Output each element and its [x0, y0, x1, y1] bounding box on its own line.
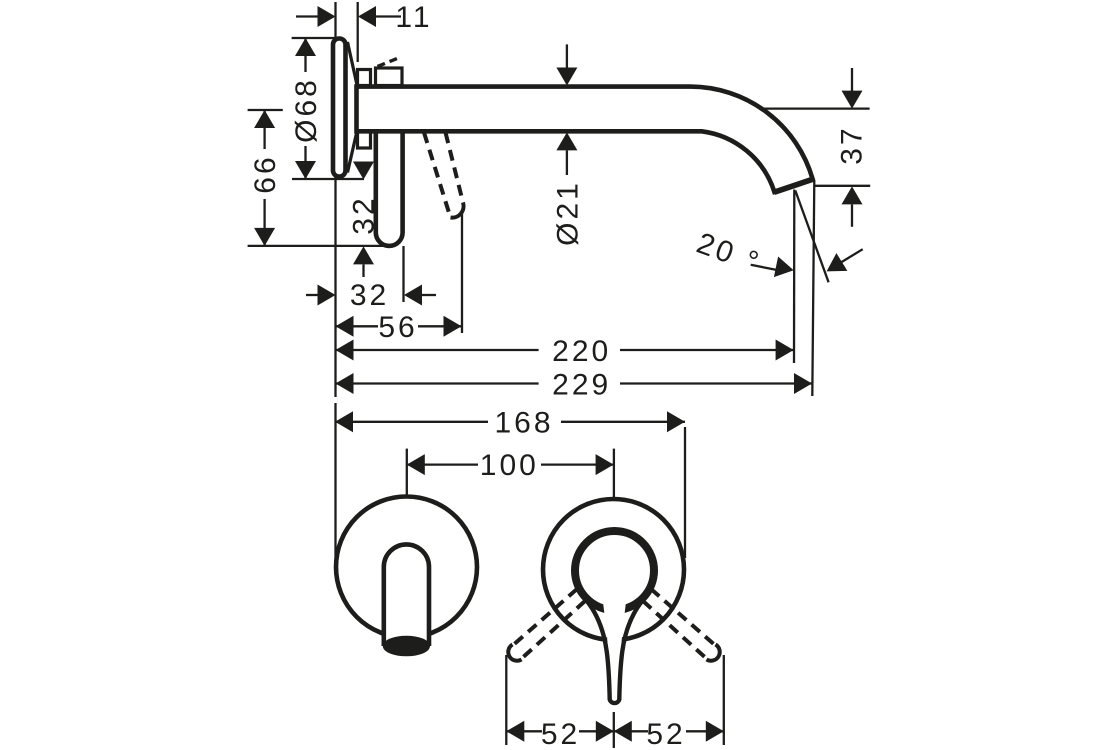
cartridge block above spout: [376, 68, 403, 86]
spout tip extension line left (220): [793, 190, 796, 364]
dimension 100: [407, 449, 614, 498]
svg-text:37: 37: [836, 125, 869, 164]
svg-text:100: 100: [480, 449, 539, 482]
svg-text:11: 11: [395, 1, 432, 34]
svg-text:Ø21: Ø21: [551, 180, 584, 246]
svg-text:220: 220: [552, 335, 611, 368]
svg-text:52: 52: [646, 718, 685, 750]
svg-text:32: 32: [350, 279, 389, 312]
dimension 56: [336, 213, 463, 344]
escutcheon front-face extension line: [357, 2, 359, 62]
spout outlet opening: [384, 637, 429, 656]
svg-text:Ø68: Ø68: [290, 77, 323, 143]
mixer escutcheon circle (front view): [543, 499, 684, 640]
dimension 11: [296, 1, 433, 34]
dimension 66: [248, 110, 392, 246]
angle dimension 20 degrees: [692, 227, 862, 280]
svg-text:32: 32: [348, 195, 381, 234]
spout (front view): [384, 544, 429, 655]
dashed handle stub (upper position): [378, 59, 398, 67]
escutcheon cone bottom taper: [348, 131, 358, 173]
svg-text:52: 52: [541, 718, 580, 750]
lever handle (side view, dashed open position): [424, 133, 464, 218]
small mounting block below spout: [358, 131, 371, 149]
spout tip extension line right (229): [812, 181, 814, 397]
wall reference vertical line: [334, 2, 336, 558]
dimension Ø68: [290, 38, 364, 179]
dimension 220: [336, 335, 794, 368]
escutcheon cone top taper: [348, 42, 358, 85]
dimension 32 horizontal: [306, 246, 436, 312]
spout escutcheon circle (front view): [336, 497, 477, 638]
lever ring (front view): [575, 531, 654, 610]
small mounting block above spout: [358, 70, 371, 86]
wall plate escutcheon (side view): [333, 39, 346, 177]
svg-text:66: 66: [249, 154, 282, 193]
svg-text:168: 168: [494, 406, 553, 439]
dimension 37: [760, 68, 870, 227]
lever dashed position left (front view): [508, 589, 585, 661]
lever dashed position right (front view): [643, 589, 720, 661]
lever handle (side view, solid): [376, 132, 403, 246]
water stream 20 degree line: [795, 191, 828, 283]
dimension Ø21: [551, 44, 584, 245]
dimension 229: [336, 368, 813, 401]
svg-text:56: 56: [378, 311, 417, 344]
dimension 32 vertical: [348, 162, 381, 278]
spout (side view): [357, 87, 813, 192]
dimension 168: [335, 406, 685, 558]
spout end face: [774, 179, 813, 192]
dimension 52 + 52: [506, 655, 724, 750]
lever stem (front view): [587, 588, 643, 703]
svg-text:229: 229: [552, 368, 611, 401]
